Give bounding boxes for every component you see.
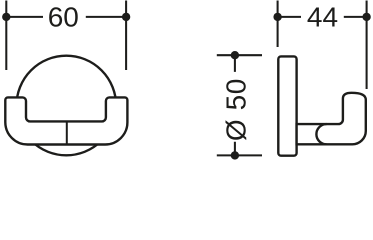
- dimension 60: right extension line: [125, 1, 127, 71]
- dimension 60: end dots: [2, 13, 10, 21]
- dimension 44: right extension line: [366, 1, 368, 90]
- front view: double hook body: [5, 97, 127, 144]
- front view: rosette circle: [17, 56, 117, 156]
- dimension 44: dimension line: [278, 16, 367, 18]
- dimension 60: left extension line: [5, 1, 7, 71]
- dimension d50: bottom leader line: [217, 154, 262, 156]
- dimension 44: left extension line: [277, 1, 279, 48]
- dimension 44: end dots: [273, 13, 281, 21]
- front view: center seam: [66, 121, 68, 144]
- side view: hook profile: [297, 93, 366, 144]
- side view: crook inner arc: [316, 124, 326, 144]
- svg-text:44: 44: [307, 2, 338, 33]
- svg-text:Ø 50: Ø 50: [220, 78, 251, 141]
- dimension d50: end dots: [231, 51, 239, 59]
- side view: wall rosette plate: [278, 56, 296, 155]
- svg-text:60: 60: [48, 2, 79, 33]
- dimension 60: dimension line: [6, 16, 126, 18]
- dimension d50: top leader line: [217, 54, 262, 56]
- dimension d50: vertical dimension line: [234, 55, 236, 155]
